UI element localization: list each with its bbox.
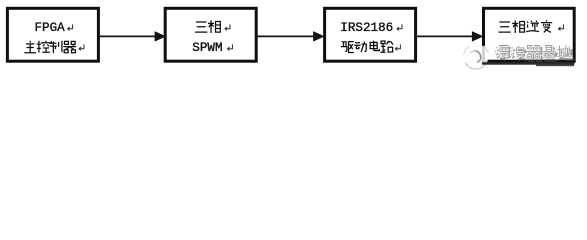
svg-text:IRS2186: IRS2186	[340, 21, 393, 35]
svg-text:SPWM: SPWM	[192, 41, 222, 55]
svg-text:FPGA: FPGA	[35, 21, 66, 35]
